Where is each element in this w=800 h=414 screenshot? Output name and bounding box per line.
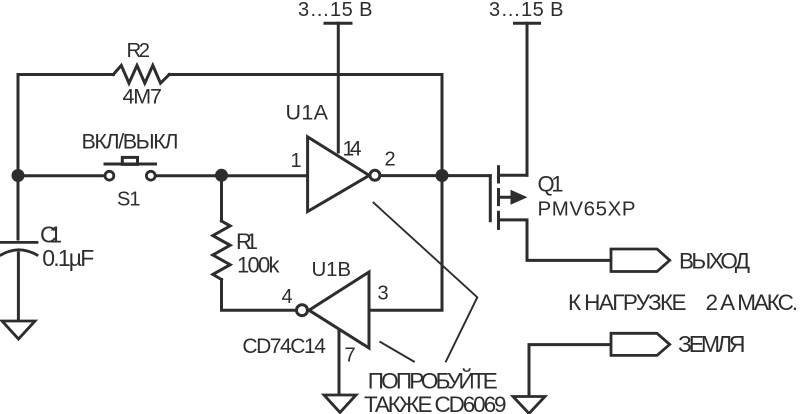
svg-text:ЗЕМЛЯ: ЗЕМЛЯ (678, 331, 746, 357)
svg-text:1: 1 (291, 150, 302, 172)
svg-text:3: 3 (378, 282, 389, 304)
svg-text:R2: R2 (127, 39, 151, 62)
svg-text:3…15 В: 3…15 В (489, 0, 564, 21)
svg-text:Q1: Q1 (538, 172, 564, 197)
svg-text:ВЫХОД: ВЫХОД (679, 248, 750, 273)
svg-text:4: 4 (282, 286, 293, 308)
svg-text:7: 7 (345, 345, 356, 367)
svg-text:ВКЛ/ВЫКЛ: ВКЛ/ВЫКЛ (82, 130, 179, 154)
svg-text:4M7: 4M7 (123, 85, 163, 109)
svg-text:U1B: U1B (312, 258, 352, 281)
svg-text:14: 14 (343, 138, 362, 161)
svg-text:R1: R1 (236, 229, 258, 254)
svg-text:S1: S1 (117, 188, 141, 210)
svg-text:U1A: U1A (286, 100, 329, 124)
svg-text:ПОПРОБУЙТЕ: ПОПРОБУЙТЕ (368, 368, 498, 393)
svg-text:100k: 100k (237, 253, 281, 278)
svg-text:CD74C14: CD74C14 (242, 335, 326, 358)
svg-text:ТАКЖЕ CD6069: ТАКЖЕ CD6069 (364, 392, 507, 414)
svg-text:3…15 В: 3…15 В (298, 0, 373, 21)
svg-text:0.1µF: 0.1µF (42, 245, 94, 271)
svg-text:PMV65XP: PMV65XP (538, 197, 636, 220)
svg-text:К НАГРУЗКЕ: К НАГРУЗКЕ (568, 290, 687, 315)
svg-text:2: 2 (385, 149, 396, 171)
svg-text:C1: C1 (40, 221, 62, 247)
svg-text:2 А МАКС.: 2 А МАКС. (706, 290, 799, 315)
